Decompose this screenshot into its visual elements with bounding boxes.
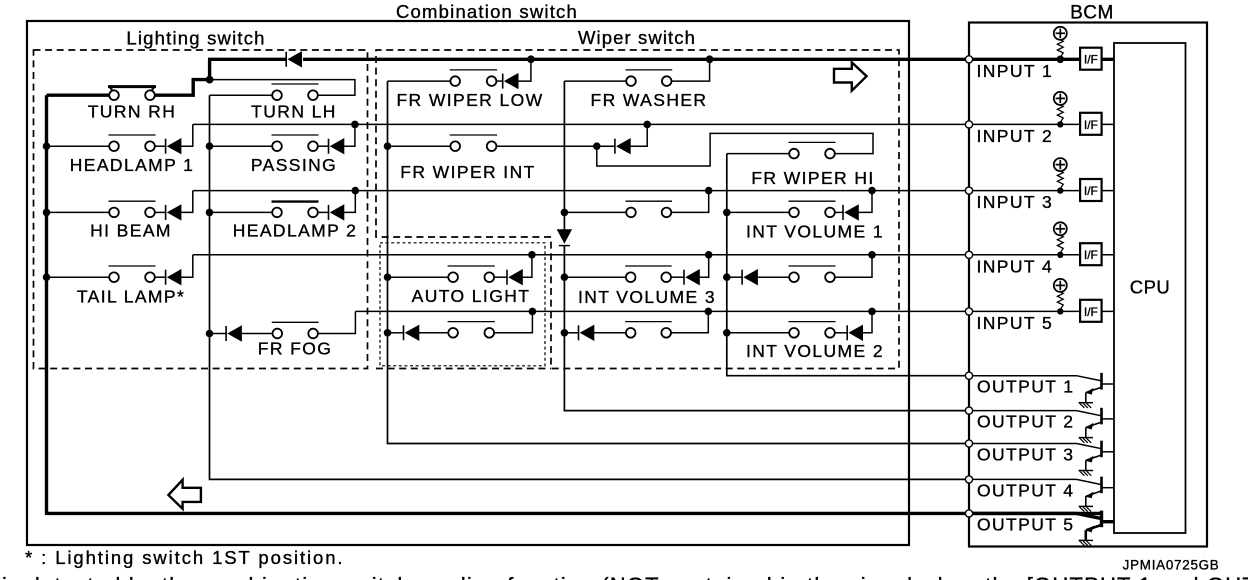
switch HEADLAMP 1: [109, 134, 156, 136]
transistor OUTPUT 2: base bar: [1100, 408, 1103, 425]
wire: TAIL LAMP diode to INPUT 4: [181, 255, 193, 277]
wire: INPUT 1 thick bus: [208, 58, 286, 61]
wire: FR WIPER LOW feed from OUTPUT 3 column: [388, 80, 451, 82]
power symbol (battery +) for INPUT 3: [1054, 158, 1067, 171]
wire: PASSING diode to INPUT 2: [344, 124, 355, 146]
wire: FR WIPER LOW diode to INPUT 1: [518, 59, 531, 81]
junction: right pair joins INPUT 4 bus: [868, 251, 876, 259]
svg-text:HEADLAMP 1: HEADLAMP 1: [70, 155, 195, 175]
switch TURN RH (closed): [108, 85, 156, 88]
I/F block for INPUT 1: [1080, 48, 1102, 70]
I/F block for INPUT 2: [1080, 113, 1102, 135]
switch FR WASHER: [626, 69, 673, 71]
diode HI BEAM: [165, 205, 167, 220]
svg-text:I/F: I/F: [1084, 248, 1098, 262]
wire: HEADLAMP 1 to diode: [155, 145, 166, 147]
wire: TAIL LAMP to diode: [155, 276, 166, 278]
svg-text:Combination switch: Combination switch: [396, 1, 578, 22]
svg-text:INPUT 1: INPUT 1: [977, 61, 1054, 81]
junction: FR WASHER joins INPUT 1 bus: [706, 55, 714, 63]
transistor OUTPUT 4: collector wire: [969, 478, 1077, 480]
svg-text:BCM: BCM: [1070, 3, 1114, 24]
wire: switch output to INPUT 5: [671, 311, 708, 332]
diode INT VOLUME 3: [683, 270, 685, 285]
svg-text:FR WASHER: FR WASHER: [591, 90, 708, 110]
svg-text:HEADLAMP 2: HEADLAMP 2: [233, 221, 358, 241]
wire: TAIL LAMP feed: [47, 276, 110, 278]
terminal circle OUTPUT 3: [965, 440, 972, 447]
wire: FR WASHER feed from OUTPUT 2 column: [564, 80, 626, 82]
wire: HEADLAMP 2 to diode: [318, 211, 329, 213]
junction: INT VOLUME 3 joins INPUT 4 bus: [705, 251, 713, 259]
wire: switch feed: [564, 211, 626, 213]
junction: AUTO LIGHT joins INPUT 4 bus: [528, 251, 536, 259]
ground for OUTPUT 5 emitter: [1079, 539, 1093, 541]
transistor OUTPUT 2: emitter with arrow: [1086, 422, 1102, 427]
power symbol (battery +) for INPUT 5: [1054, 279, 1067, 292]
junction: FR WIPER LOW joins INPUT 1 bus: [527, 55, 535, 63]
switch TAIL LAMP*: [109, 265, 156, 267]
svg-text:FR FOG: FR FOG: [258, 339, 333, 359]
wire: FR WIPER INT feed: [388, 145, 451, 147]
transistor OUTPUT 4: base bar: [1100, 477, 1103, 494]
I/F block for INPUT 4: [1080, 243, 1102, 265]
wire: thick left column (OUTPUT 5 riser): [45, 95, 48, 513]
junction: OUTPUT 1 column at right pair: [723, 273, 731, 281]
junction: TURN RH output / TURN LH output node: [206, 76, 214, 84]
wire: OUTPUT 5 thick bus (BCM to far left): [969, 512, 1102, 515]
wire: INPUT 2 bus: [193, 123, 1114, 125]
dashed line: notch bottom between boxes: [376, 368, 551, 370]
resistor (pull-up) for INPUT 1: [1057, 40, 1063, 58]
junction: OUTPUT 3 column at FR WIPER INT: [384, 142, 392, 150]
svg-text:Lighting switch: Lighting switch: [126, 28, 265, 49]
junction: OUTPUT 2 column at lower row: [561, 329, 569, 337]
transistor OUTPUT 3: collector wire: [969, 443, 1077, 445]
wire: INT VOLUME 2 to diode: [835, 332, 848, 334]
diode TAIL LAMP: [165, 270, 167, 285]
svg-text:I/F: I/F: [1084, 184, 1098, 198]
wire: INT VOLUME 2 feed: [727, 332, 790, 334]
svg-text:TAIL LAMP*: TAIL LAMP*: [77, 287, 185, 307]
wire: AUTO LIGHT diode to INPUT 4: [523, 255, 532, 277]
wire: PASSING feed: [210, 145, 273, 147]
junction: OUTPUT 4 column at FR FOG: [206, 330, 214, 338]
CPU box: [1114, 43, 1186, 533]
junction: FR WIPER INT joins INPUT 2 bus: [643, 121, 651, 129]
wire: INT VOLUME 1 feed: [727, 211, 790, 213]
terminal circle INPUT 4: [965, 251, 972, 258]
wire: HEADLAMP 2 feed: [210, 211, 273, 213]
diode (lower middle row): [403, 325, 405, 340]
terminal circle INPUT 3: [965, 187, 972, 194]
svg-text:JPMIA0725GB: JPMIA0725GB: [1123, 558, 1220, 573]
wire: HI BEAM diode to INPUT 3: [181, 191, 193, 213]
diode FR FOG: [225, 326, 227, 341]
svg-text:I/F: I/F: [1084, 118, 1098, 132]
svg-text:INPUT 3: INPUT 3: [977, 192, 1054, 212]
transistor OUTPUT 2: collector wire: [969, 410, 1077, 412]
junction: OUTPUT 4 column at PASSING: [206, 142, 214, 150]
wire: TURN LH output hook to node: [210, 80, 355, 96]
switch (unnamed, INT VOLUME group right): [789, 265, 836, 267]
svg-text:FR WIPER LOW: FR WIPER LOW: [396, 90, 543, 110]
junction: joins INPUT 5 bus: [705, 308, 713, 316]
power symbol (battery +) for INPUT 4: [1054, 222, 1067, 235]
I/F block for INPUT 3: [1080, 179, 1102, 201]
ground for OUTPUT 3 emitter: [1079, 470, 1093, 472]
junction: pull-up on INPUT 2 wire: [1057, 121, 1063, 127]
diode AUTO LIGHT: [506, 270, 508, 285]
wire: diode to switch: [419, 332, 448, 334]
wire: OUTPUT 1 column: [727, 154, 969, 376]
wire: PASSING to diode: [318, 145, 329, 147]
switch TURN LH: [272, 83, 319, 85]
junction: OUTPUT 5 column at HI BEAM: [43, 209, 51, 217]
wire: switch output to INPUT 4: [835, 255, 872, 277]
junction: PASSING joins INPUT 2 bus: [351, 121, 359, 129]
wire: OUTPUT 1 column to diode: [727, 276, 742, 278]
wire: HEADLAMP 1 feed: [47, 145, 110, 147]
transistor OUTPUT 3: base to CPU: [1102, 451, 1115, 453]
wire: thick bottom bus from left column to BCM: [45, 512, 969, 515]
svg-text:* : Lighting switch 1ST positi: * : Lighting switch 1ST position.: [25, 547, 344, 568]
switch INT VOLUME 1: [789, 200, 836, 202]
dashed box: Lighting switch: [34, 50, 368, 369]
diode INT VOLUME 1: [842, 205, 844, 220]
svg-text:AUTO LIGHT: AUTO LIGHT: [412, 286, 531, 306]
svg-text:TURN RH: TURN RH: [88, 102, 177, 122]
wire: INT VOLUME 1 diode to INPUT 3: [859, 191, 873, 213]
resistor (pull-up) for INPUT 2: [1057, 105, 1063, 123]
diode in OUTPUT 2 column (down-pointing): [557, 229, 572, 244]
switch FR FOG: [272, 321, 319, 323]
wire: thick TURN RH output elbow to INPUT 1: [155, 80, 210, 96]
junction: pull-up on INPUT 5 wire: [1057, 308, 1063, 314]
svg-text:INPUT 4: INPUT 4: [977, 256, 1054, 276]
wire: OUTPUT 4 column: [210, 95, 970, 479]
transistor OUTPUT 1: collector wire: [969, 375, 1077, 377]
svg-text:INPUT 2: INPUT 2: [977, 126, 1054, 146]
junction: OUTPUT 3 column at AUTO LIGHT: [384, 273, 392, 281]
resistor (pull-up) for INPUT 4: [1057, 235, 1063, 253]
transistor OUTPUT 2: base to CPU: [1102, 418, 1115, 420]
wire: INPUT 5 bus: [355, 310, 1114, 312]
wire: INT VOLUME 3 feed: [564, 276, 626, 278]
wire: HI BEAM to diode: [155, 211, 166, 213]
diode on INPUT 1 bus: [285, 52, 287, 67]
switch HEADLAMP 2: [272, 200, 319, 202]
outer box: Combination switch enclosure: [27, 21, 909, 545]
transistor OUTPUT 3: emitter with arrow: [1086, 455, 1102, 460]
wire: FR WIPER HI left feed from OUTPUT 1 column: [727, 153, 790, 155]
wire: FR WIPER LOW to diode: [496, 80, 502, 82]
transistor OUTPUT 5: base to CPU: [1102, 520, 1115, 523]
junction: FR WIPER INT output split: [593, 142, 601, 150]
junction: INT VOLUME 2 joins INPUT 5 bus: [868, 308, 876, 316]
power symbol (battery +) for INPUT 2: [1054, 92, 1067, 105]
terminal circle OUTPUT 5: [965, 510, 972, 517]
junction: OUTPUT 2 column at row: [561, 209, 569, 217]
wire: switch output to INPUT 5: [494, 311, 532, 332]
wire: AUTO LIGHT feed: [388, 276, 449, 278]
svg-text:FR WIPER INT: FR WIPER INT: [400, 162, 535, 182]
wire: FR WASHER output to INPUT 1: [671, 59, 709, 81]
junction: joins INPUT 5 bus: [529, 308, 537, 316]
wire: column to diode: [564, 332, 578, 334]
wire: OUTPUT 2 column upper: [563, 81, 565, 229]
svg-text:I/F: I/F: [1084, 305, 1098, 319]
svg-text:OUTPUT 1: OUTPUT 1: [977, 377, 1074, 397]
switch FR WIPER INT: [450, 134, 497, 136]
resistor (pull-up) for INPUT 5: [1057, 292, 1063, 310]
svg-text:OUTPUT 2: OUTPUT 2: [977, 412, 1074, 432]
transistor OUTPUT 1: emitter with arrow: [1086, 387, 1102, 392]
switch FR WIPER HI: [789, 141, 836, 143]
wire: TURN LH left feed from OUTPUT 4 column: [210, 94, 273, 96]
transistor OUTPUT 5: collector wire: [969, 512, 1077, 515]
svg-text:OUTPUT 5: OUTPUT 5: [977, 514, 1074, 534]
wire: INT VOLUME 3 to diode: [671, 276, 684, 278]
transistor OUTPUT 3: base bar: [1100, 441, 1103, 458]
resistor (pull-up) for INPUT 3: [1057, 171, 1063, 189]
junction: OUTPUT 1 column at INT VOLUME 2: [723, 329, 731, 337]
wire: switch output to INPUT 3 jog: [671, 191, 709, 213]
ground for OUTPUT 4 emitter: [1079, 505, 1093, 507]
wire: split to diode: [597, 145, 615, 147]
svg-text:Wiper switch: Wiper switch: [578, 27, 696, 48]
junction: pull-up on INPUT 1 wire: [1057, 56, 1065, 64]
transistor OUTPUT 4: base to CPU: [1102, 487, 1115, 489]
wire: thick TURN RH feed: [47, 93, 110, 96]
transistor OUTPUT 1: base bar: [1100, 373, 1103, 390]
terminal circle OUTPUT 1: [965, 372, 972, 379]
junction: OUTPUT 1 column at INT VOLUME 1: [723, 209, 731, 217]
wire: column to diode: [388, 332, 404, 334]
wire: OUTPUT 3 column: [388, 81, 970, 443]
wire: split down to FR WIPER HI loop: [597, 133, 873, 166]
svg-text:is detected by the combination: is detected by the combination switch re…: [2, 573, 1248, 580]
wire: HEADLAMP 2 diode to INPUT 3: [344, 191, 355, 213]
wire: diode to switch: [594, 332, 626, 334]
svg-text:HI BEAM: HI BEAM: [90, 221, 172, 241]
ground for OUTPUT 2 emitter: [1079, 437, 1093, 439]
wire: INPUT 4 bus: [193, 254, 1114, 256]
junction: INT VOLUME 1 joins INPUT 3 bus: [868, 187, 876, 195]
svg-text:I/F: I/F: [1084, 53, 1098, 67]
switch (unnamed, INT VOLUME group lower): [625, 321, 672, 323]
dashed box: AUTO LIGHT sub-enclosure: [380, 243, 545, 366]
I/F block for INPUT 5: [1080, 300, 1102, 322]
svg-text:OUTPUT 4: OUTPUT 4: [977, 480, 1074, 500]
dashed boundary: Wiper switch (notched outline): [376, 50, 899, 369]
wire: diode to switch: [758, 276, 790, 278]
transistor OUTPUT 1: base to CPU: [1102, 383, 1115, 385]
diode HEADLAMP 1: [165, 139, 167, 154]
switch (unnamed, AUTO LIGHT group): [448, 321, 495, 323]
terminal circle INPUT 2: [965, 121, 972, 128]
wire: FR WIPER INT diode to INPUT 2: [630, 124, 647, 146]
svg-text:INT VOLUME 3: INT VOLUME 3: [578, 287, 716, 307]
switch PASSING: [272, 134, 319, 136]
svg-text:PASSING: PASSING: [251, 155, 337, 175]
transistor OUTPUT 4: emitter with arrow: [1086, 491, 1102, 496]
switch INT VOLUME 2: [789, 321, 836, 323]
junction: OUTPUT 2 column at INT VOLUME 3: [561, 273, 569, 281]
wire: FR FOG column to diode: [210, 333, 227, 335]
diode INT VOLUME 2: [846, 325, 848, 340]
arrow: signal direction right (to INPUT 1): [834, 62, 867, 90]
diode (row feed, INT VOLUME group): [741, 270, 743, 285]
wire: HEADLAMP 1 diode to INPUT 2: [181, 124, 193, 146]
arrow: signal direction left (from OUTPUT 5): [168, 480, 201, 509]
diode HEADLAMP 2: [328, 205, 330, 220]
terminal circle INPUT 1: [965, 56, 972, 63]
switch INT VOLUME 3: [625, 265, 672, 267]
junction: OUTPUT 4 column at HEADLAMP 2: [206, 209, 214, 217]
wire: FR FOG diode to switch: [242, 333, 273, 335]
svg-text:INT VOLUME 2: INT VOLUME 2: [746, 341, 884, 361]
wire: AUTO LIGHT to diode: [494, 276, 507, 278]
junction: pull-up on INPUT 4 wire: [1057, 252, 1063, 258]
wire: FR FOG output to INPUT 5: [318, 311, 356, 333]
switch HI BEAM: [109, 200, 156, 202]
svg-text:CPU: CPU: [1130, 277, 1171, 298]
switch AUTO LIGHT: [448, 265, 495, 267]
wire: INT VOLUME 2 diode to INPUT 5: [863, 311, 872, 332]
wire: INPUT 1 thick bus after diode: [303, 58, 969, 61]
switch (unnamed, INT VOLUME group): [626, 200, 673, 202]
diode FR WIPER LOW: [502, 74, 504, 89]
svg-text:INT VOLUME 1: INT VOLUME 1: [746, 222, 884, 242]
wire: HI BEAM feed: [47, 211, 110, 213]
svg-text:OUTPUT 3: OUTPUT 3: [977, 445, 1074, 465]
terminal circle OUTPUT 2: [965, 407, 972, 414]
diode FR WIPER INT: [614, 139, 616, 154]
wire: INPUT 1 bus into CPU: [969, 58, 1114, 61]
terminal circle INPUT 5: [965, 308, 972, 315]
wire: INPUT 3 bus: [193, 190, 1114, 192]
junction: OUTPUT 3 column at lower row: [384, 329, 392, 337]
svg-text:INPUT 5: INPUT 5: [977, 313, 1054, 333]
junction: jog joins INPUT 3 bus: [705, 187, 713, 195]
wire: INT VOLUME 1 to diode: [835, 211, 843, 213]
terminal circle OUTPUT 4: [965, 476, 972, 483]
wire: FR WIPER INT output to split node: [496, 145, 597, 147]
diode PASSING: [328, 139, 330, 154]
BCM box: [969, 23, 1207, 547]
wire: INT VOLUME 3 diode to INPUT 4: [700, 255, 709, 277]
junction: OUTPUT 5 column at TAIL LAMP: [43, 273, 51, 281]
svg-text:TURN LH: TURN LH: [251, 102, 337, 122]
svg-text:FR WIPER HI: FR WIPER HI: [751, 168, 874, 188]
junction: OUTPUT 5 column at HEADLAMP 1: [43, 142, 51, 150]
junction: HEADLAMP 2 joins INPUT 3 bus: [352, 187, 360, 195]
junction: pull-up on INPUT 3 wire: [1057, 187, 1063, 193]
wire: OUTPUT 2 column lower: [564, 246, 969, 411]
transistor OUTPUT 5: base bar: [1100, 511, 1103, 528]
ground for OUTPUT 1 emitter: [1079, 402, 1093, 404]
wire: thick riser to INPUT 1 bus: [208, 59, 211, 81]
switch FR WIPER LOW: [450, 69, 497, 71]
power symbol (battery +) for INPUT 1: [1054, 27, 1067, 40]
transistor OUTPUT 5: emitter with arrow: [1086, 525, 1102, 530]
diode (lower mid-right row): [578, 325, 580, 340]
